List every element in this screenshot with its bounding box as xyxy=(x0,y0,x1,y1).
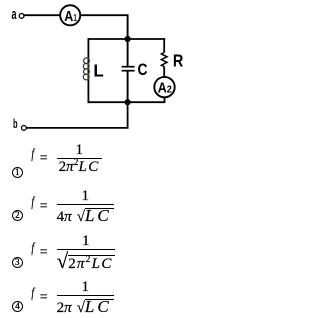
terminal b xyxy=(22,126,27,131)
wire zigzag to A2 xyxy=(163,67,165,77)
svg-text:A: A xyxy=(158,79,167,96)
inductor L coil xyxy=(83,58,89,80)
svg-text:L: L xyxy=(93,60,104,80)
svg-text:a: a xyxy=(12,6,17,23)
capacitor branch wire bottom xyxy=(127,72,129,103)
wire a to A1 xyxy=(24,14,60,16)
wire A1 to top corner down to junction xyxy=(80,15,127,39)
label L xyxy=(93,60,104,80)
svg-text:2: 2 xyxy=(167,83,172,95)
choice 4 marker xyxy=(12,301,23,312)
terminal a xyxy=(19,14,24,19)
junction node top xyxy=(125,36,131,42)
resistor branch wire top xyxy=(163,38,165,52)
wire A2 to bottom rail xyxy=(164,97,166,103)
label a xyxy=(12,6,17,23)
resistor R zigzag xyxy=(161,53,167,67)
circuit schematic xyxy=(0,0,193,135)
choice 1 marker xyxy=(12,167,23,178)
label C xyxy=(138,61,148,79)
svg-text:A: A xyxy=(64,8,73,25)
inductor branch wire xyxy=(87,38,89,103)
svg-text:C: C xyxy=(138,61,148,79)
junction node bottom xyxy=(125,99,131,105)
svg-text:b: b xyxy=(13,117,18,131)
choice 2 marker xyxy=(12,210,23,221)
formula 1: f = 1/(2 pi^2 L C) xyxy=(31,142,102,175)
formula 2: f = 1/(4 pi sqrt(LC)) xyxy=(31,188,114,225)
choice 3 marker xyxy=(12,257,23,268)
wire junction to b xyxy=(27,102,128,128)
label R xyxy=(173,51,184,71)
top rail xyxy=(88,38,166,40)
svg-text:1: 1 xyxy=(73,12,77,24)
formula 4: f = 1/(2 pi sqrt(LC)) xyxy=(31,279,114,316)
ammeter A2 xyxy=(154,77,174,97)
capacitor C plates xyxy=(122,67,135,71)
label b xyxy=(13,117,18,131)
capacitor branch wire top xyxy=(127,39,129,66)
formula 3: f = 1/sqrt(2 pi^2 L C) xyxy=(31,233,115,272)
bottom rail xyxy=(88,101,166,103)
svg-text:R: R xyxy=(173,51,184,71)
ammeter A1 xyxy=(60,5,80,25)
